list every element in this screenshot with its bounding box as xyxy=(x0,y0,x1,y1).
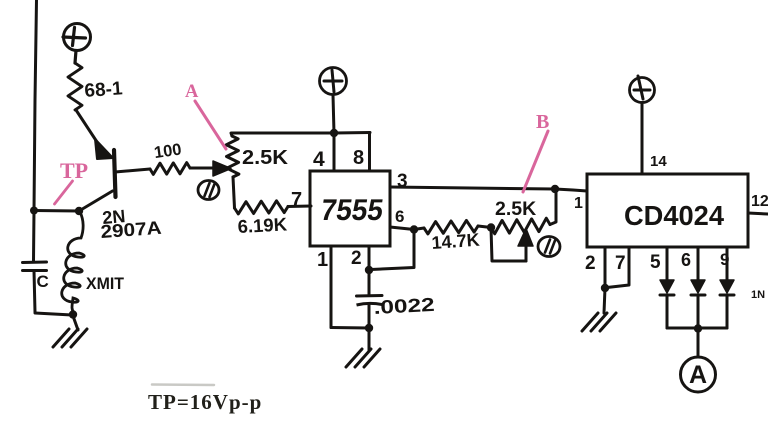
ammeter A xyxy=(681,357,716,392)
pin 6 wire + diode D2 xyxy=(681,247,705,328)
svg-text:14: 14 xyxy=(650,153,667,170)
svg-text:6.19K: 6.19K xyxy=(237,213,288,237)
pin 1 wire xyxy=(317,246,369,328)
pin 7 wire (CD4024) xyxy=(607,247,629,288)
svg-text:2.5K: 2.5K xyxy=(495,198,536,220)
power supply V+ (left) xyxy=(63,24,91,64)
svg-text:68-1: 68-1 xyxy=(84,78,124,102)
label 1N xyxy=(751,289,765,301)
resistor 68-1 xyxy=(68,63,124,110)
pin 7 label xyxy=(291,189,302,211)
wiper arrow for pot A xyxy=(213,161,231,176)
svg-text:1: 1 xyxy=(317,249,328,271)
svg-text:TP=16Vp-p: TP=16Vp-p xyxy=(148,390,262,414)
svg-text:7555: 7555 xyxy=(319,194,386,227)
node TP (collector node) xyxy=(30,207,83,216)
node left of pot B xyxy=(487,223,495,231)
pin 2 wire xyxy=(351,246,373,274)
power supply V+ (right) xyxy=(630,76,668,174)
caption TP=16Vp-p xyxy=(148,390,262,414)
ground (left) xyxy=(53,316,87,347)
pin 9 wire + diode D3 xyxy=(720,247,734,328)
svg-text:CD4024: CD4024 xyxy=(624,200,724,231)
TP label (pink) xyxy=(55,158,89,204)
top rail to V+ xyxy=(231,133,370,137)
faint smudge xyxy=(152,383,214,386)
ground (7555) xyxy=(346,328,380,367)
pin 6 wire xyxy=(390,207,418,234)
inductor XMIT xyxy=(62,212,124,313)
pot B right wire up to node xyxy=(550,189,556,225)
label 2N2907A xyxy=(100,206,162,242)
svg-text:8: 8 xyxy=(353,147,364,169)
svg-text:.0022: .0022 xyxy=(373,295,435,319)
svg-text:A: A xyxy=(185,82,199,102)
svg-text:1: 1 xyxy=(574,195,583,212)
IC U2 CD4024 xyxy=(587,174,748,247)
svg-text:7: 7 xyxy=(291,189,302,211)
IC U1 7555 xyxy=(310,171,390,246)
input wire from top edge xyxy=(34,0,37,211)
svg-text:2: 2 xyxy=(351,248,362,269)
capacitor C xyxy=(23,211,73,316)
svg-text:9: 9 xyxy=(720,250,729,269)
node + ground (CD4024) xyxy=(582,284,616,331)
svg-text:100: 100 xyxy=(153,140,183,162)
node below cap xyxy=(365,324,373,332)
pin 4 wire xyxy=(313,133,334,171)
pot B wiper arrow xyxy=(491,228,533,262)
label B (pink) with leader xyxy=(523,111,549,192)
svg-text:XMIT: XMIT xyxy=(86,275,124,293)
resistor 100 xyxy=(150,140,216,174)
potentiometer 2.5K (B) xyxy=(491,198,550,234)
power supply V+ (middle) xyxy=(320,68,347,138)
pin 8 wire xyxy=(353,133,370,172)
svg-text:12: 12 xyxy=(751,193,768,210)
wire pin6-node to pin2-node xyxy=(371,230,414,270)
capacitor .0022 xyxy=(357,270,436,328)
svg-text:2: 2 xyxy=(585,253,596,274)
pin 3 wire to node xyxy=(390,171,559,193)
resistor 6.19K xyxy=(233,177,311,237)
svg-text:A: A xyxy=(689,361,707,389)
trimmer symbol A xyxy=(198,181,219,200)
svg-text:6: 6 xyxy=(681,250,691,270)
svg-text:TP: TP xyxy=(60,158,88,183)
svg-text:7: 7 xyxy=(615,253,626,274)
svg-text:6: 6 xyxy=(395,207,404,226)
potentiometer 2.5K (A) xyxy=(226,136,288,177)
node at XMIT bottom xyxy=(69,310,77,318)
svg-text:C: C xyxy=(37,272,49,291)
resistor 14.7K xyxy=(414,220,491,253)
label A (pink) with leader xyxy=(185,82,226,149)
pin 5 wire + diode D1 xyxy=(650,247,674,328)
wire node to CD4024 pin 1 xyxy=(555,189,587,212)
svg-text:14.7K: 14.7K xyxy=(431,230,480,253)
svg-text:5: 5 xyxy=(650,252,661,273)
transistor Q1 2N2907A (PNP) xyxy=(76,110,150,211)
pin 2 wire (CD4024) xyxy=(585,247,605,288)
bus + node above ammeter xyxy=(667,324,727,357)
svg-text:3: 3 xyxy=(397,171,408,192)
svg-text:4: 4 xyxy=(313,148,325,171)
pin 12 wire xyxy=(748,193,768,214)
svg-text:2.5K: 2.5K xyxy=(242,147,289,169)
svg-text:2907A: 2907A xyxy=(100,217,162,242)
svg-text:1N: 1N xyxy=(751,289,765,301)
trimmer symbol B xyxy=(538,237,560,257)
